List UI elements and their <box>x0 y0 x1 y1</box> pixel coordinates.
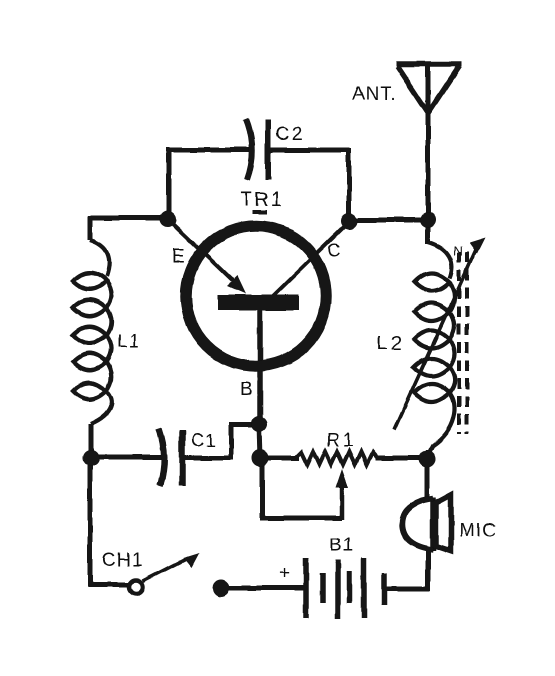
svg-text:C1: C1 <box>191 430 216 450</box>
svg-text:L1: L1 <box>117 331 140 352</box>
svg-text:+: + <box>279 563 290 584</box>
svg-text:L2: L2 <box>377 333 405 355</box>
svg-text:E: E <box>172 246 185 267</box>
svg-text:ANT.: ANT. <box>352 84 397 105</box>
svg-text:B1: B1 <box>329 535 354 556</box>
svg-text:MIC: MIC <box>459 520 497 541</box>
svg-text:B: B <box>240 380 253 401</box>
svg-text:TR1: TR1 <box>240 189 284 211</box>
svg-text:N: N <box>453 243 462 258</box>
svg-text:C: C <box>328 240 341 260</box>
svg-text:R1: R1 <box>326 430 356 451</box>
svg-text:C2: C2 <box>276 124 304 145</box>
svg-text:CH1: CH1 <box>102 550 143 571</box>
